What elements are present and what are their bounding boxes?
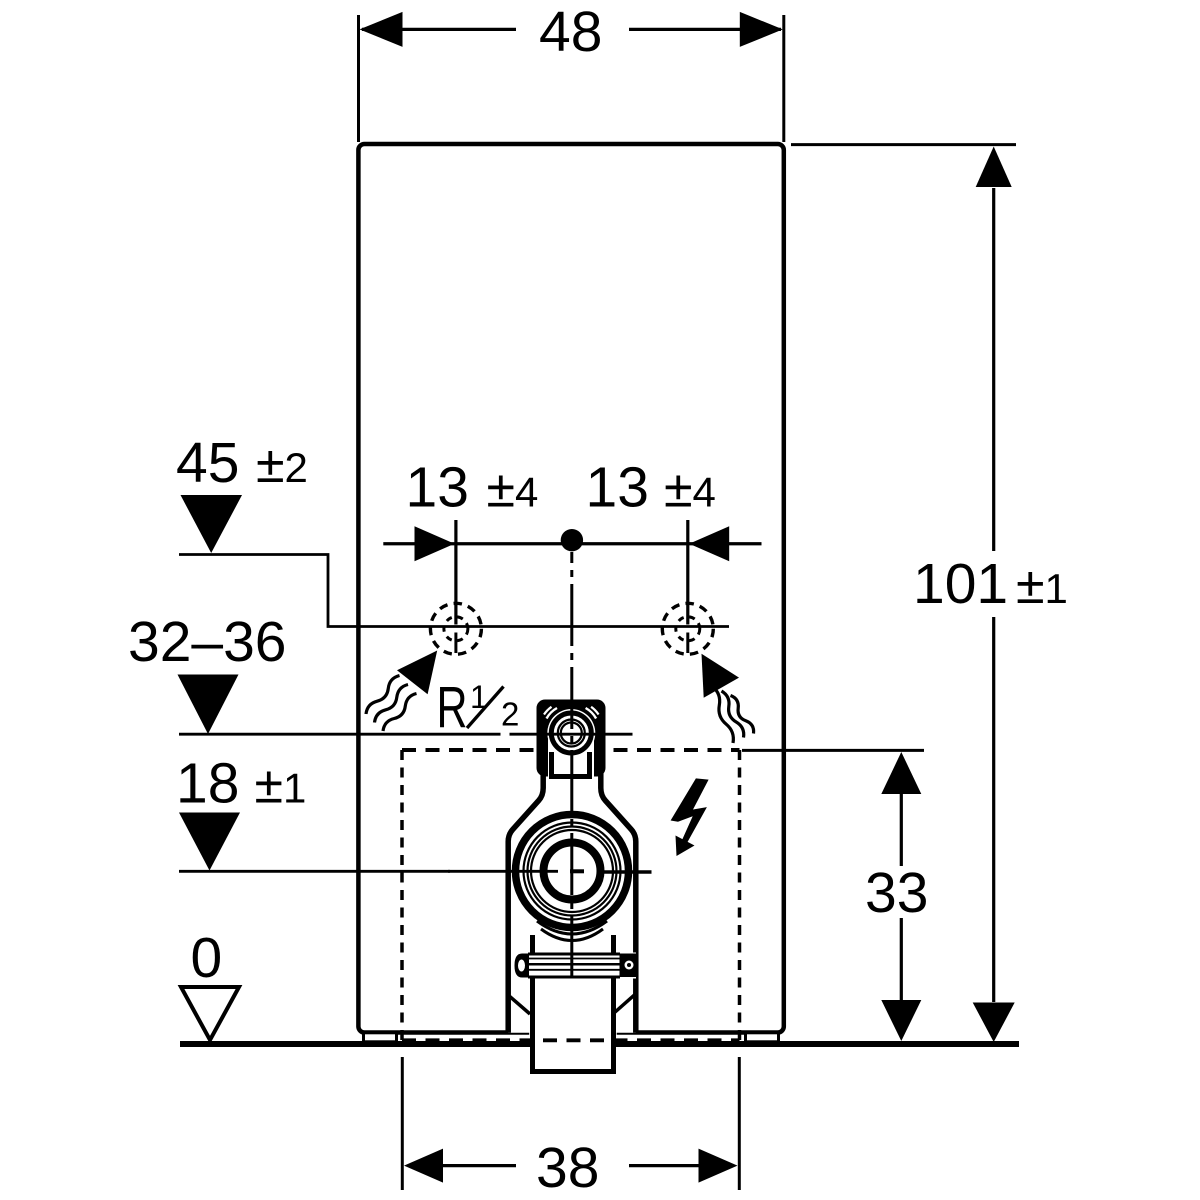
mounting rail right cap pin	[627, 963, 631, 967]
svg-text:18: 18	[176, 752, 239, 816]
dimension 101: top reference line	[791, 143, 1016, 146]
R1/2 socket black body	[537, 700, 606, 777]
dimension 101: dimension line	[992, 188, 995, 1002]
right water connection centreline below	[686, 633, 689, 654]
level triangle 45	[181, 495, 243, 553]
centre mark right segment of supply elbow	[598, 870, 652, 874]
dashed installation zone box: right edge	[738, 750, 742, 1040]
saddle arc upper	[537, 921, 607, 934]
floor line left	[180, 1041, 532, 1047]
socket top-left highlight slits	[547, 708, 558, 719]
svg-text:2: 2	[501, 696, 519, 733]
left water connection inner dashed circle	[444, 617, 468, 641]
svg-text:±4: ±4	[487, 461, 539, 519]
dimension 48: dimension line	[362, 28, 781, 31]
svg-text:±2: ±2	[256, 436, 308, 494]
fitting housing fill	[508, 776, 636, 1033]
right foot under panel	[746, 1033, 779, 1042]
centre reference dot	[561, 529, 583, 551]
water fitting group	[508, 700, 636, 1075]
supply elbow outer ring	[516, 815, 629, 928]
dimension 101: bottom arrow	[973, 1003, 1015, 1043]
dimension 48: left arrow	[360, 12, 403, 47]
mounting rail right cap hole	[625, 961, 634, 970]
mounting rail left cap	[515, 954, 530, 978]
R1/2 socket inner white pocket	[548, 733, 594, 777]
drain pipe left wall	[530, 935, 535, 1072]
dashed installation zone box: top edge	[402, 748, 740, 752]
supply elbow thread ring 3	[531, 830, 613, 912]
electrical connection lightning bolt	[671, 778, 709, 846]
mounting rail lines	[528, 954, 620, 977]
left water connection centreline below	[454, 633, 457, 654]
dimension 13/13: dimension line	[383, 542, 761, 545]
dimension 38: right arrow	[699, 1149, 738, 1183]
left water flow arrow	[366, 651, 437, 732]
drain pipe bottom edge	[530, 1069, 616, 1074]
vertical centre line	[570, 552, 573, 978]
socket thread ring 1	[558, 720, 585, 747]
level line 45: stepped leader	[179, 555, 729, 627]
left water connection dashed circle	[430, 603, 481, 654]
fitting housing right outline	[601, 772, 636, 1033]
level triangle 32-36	[178, 675, 239, 735]
right strut	[614, 994, 636, 1014]
svg-text:R: R	[437, 675, 468, 740]
dimension 38: left extension line	[401, 1057, 404, 1190]
drain pipe white body	[529, 935, 617, 1074]
svg-text:45: 45	[176, 431, 239, 495]
dimension 48: left extension line	[357, 15, 360, 142]
drain pipe right wall	[611, 935, 616, 1072]
svg-text:0: 0	[191, 926, 223, 990]
dimension 48: right extension line	[782, 15, 785, 142]
level line 18 over elbow	[448, 870, 558, 873]
supply elbow white face	[512, 811, 633, 932]
svg-text:13: 13	[406, 456, 469, 520]
centre mark dash of supply elbow	[570, 869, 584, 873]
svg-text:32–36: 32–36	[128, 610, 287, 674]
fitting housing left outline	[508, 772, 543, 1033]
dimension 38: left arrow	[404, 1149, 443, 1183]
dimension 13 right: extension line above connection	[686, 520, 689, 625]
socket face white circle	[547, 709, 595, 757]
svg-text:±1: ±1	[255, 757, 307, 815]
open level triangle 0 (floor datum)	[181, 987, 239, 1040]
level line 32-36	[179, 733, 501, 736]
svg-text:101: 101	[913, 552, 1008, 616]
dashed installation zone box: left edge	[400, 750, 404, 1040]
dimension 13 right: arrow	[689, 526, 729, 561]
dimension 48: right arrow	[740, 12, 783, 47]
svg-text:38: 38	[536, 1136, 599, 1200]
supply elbow thread ring 2	[528, 827, 617, 916]
dimension 33: top reference line	[742, 749, 924, 752]
dimension 38: right extension line	[738, 1057, 741, 1190]
socket thread ring 2	[561, 723, 582, 744]
left strut	[508, 995, 530, 1014]
mounting rail left cap hole	[518, 960, 525, 972]
mounting rail white body	[515, 953, 637, 979]
svg-text:±1: ±1	[1016, 557, 1068, 615]
dimension 33: dimension line	[900, 793, 903, 1001]
socket top-right highlight slits	[586, 708, 597, 719]
socket ring	[551, 713, 591, 753]
left foot under panel	[364, 1033, 397, 1042]
supply elbow thread ring 1	[524, 823, 621, 920]
dashed floor hidden edge	[402, 1038, 740, 1042]
svg-text:13: 13	[586, 456, 649, 520]
dimension 33: bottom arrow	[881, 1000, 921, 1041]
svg-text:33: 33	[865, 861, 928, 925]
right water connection inner dashed circle	[676, 617, 700, 641]
level line 32-36 over socket	[510, 733, 633, 736]
dimension 13 left: arrow	[415, 526, 455, 561]
right water flow arrow	[702, 654, 754, 743]
right water connection dashed circle	[662, 603, 713, 654]
dimension 13 left: extension line above connection	[454, 520, 457, 625]
dimension 101: top arrow	[976, 147, 1012, 188]
socket clamp bracket	[552, 752, 590, 777]
sanitary module panel outline	[358, 144, 783, 1033]
level line 18	[179, 870, 450, 873]
saddle arc lower	[541, 929, 603, 941]
floor line right	[615, 1041, 1020, 1047]
dimension 33: top arrow	[881, 752, 921, 794]
level triangle 18	[179, 813, 240, 871]
mounting rail right cap	[620, 954, 637, 978]
dimension 38: dimension line	[409, 1164, 733, 1167]
supply elbow bore ring	[544, 843, 601, 900]
svg-text:±4: ±4	[664, 461, 716, 519]
svg-text:48: 48	[539, 0, 602, 64]
